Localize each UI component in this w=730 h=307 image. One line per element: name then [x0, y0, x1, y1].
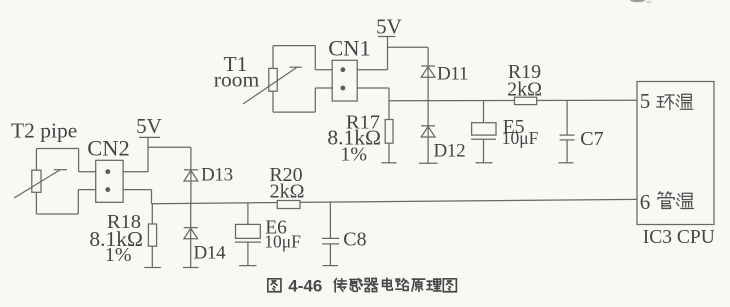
svg-text:CN2: CN2: [87, 136, 130, 161]
svg-text:1%: 1%: [340, 143, 367, 165]
svg-text:5V: 5V: [136, 114, 162, 138]
svg-text:C7: C7: [580, 128, 603, 150]
svg-text:2kΩ: 2kΩ: [270, 180, 305, 202]
svg-text:6: 6: [640, 190, 651, 214]
svg-text:C8: C8: [343, 228, 366, 250]
svg-text:D13: D13: [201, 165, 233, 186]
svg-text:D12: D12: [434, 140, 466, 161]
svg-text:5V: 5V: [376, 15, 402, 39]
svg-text:10μF: 10μF: [264, 231, 301, 251]
svg-text:5: 5: [640, 89, 651, 113]
svg-text:4-46: 4-46: [288, 276, 322, 295]
svg-text:IC3 CPU: IC3 CPU: [643, 227, 715, 248]
svg-text:1%: 1%: [105, 244, 132, 266]
svg-text:room: room: [214, 68, 260, 92]
svg-text:CN1: CN1: [328, 36, 371, 61]
svg-text:D11: D11: [437, 64, 468, 85]
svg-text:10μF: 10μF: [502, 128, 539, 148]
svg-text:2kΩ: 2kΩ: [507, 78, 542, 100]
svg-text:D14: D14: [194, 242, 227, 263]
svg-text:T2 pipe: T2 pipe: [11, 119, 77, 143]
